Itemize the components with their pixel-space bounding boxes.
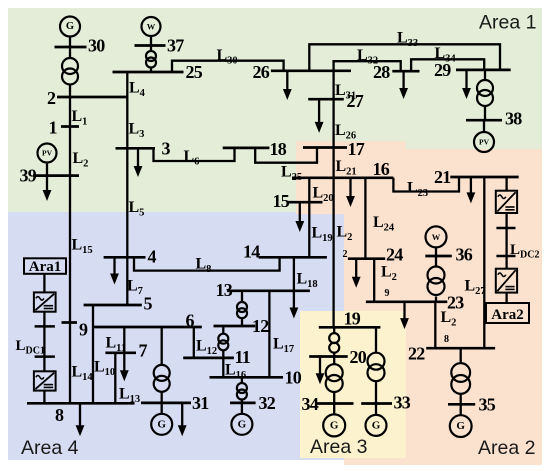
label LDC2	[510, 242, 539, 261]
label L14	[72, 364, 94, 384]
wire 5-6	[92, 305, 94, 327]
wire L16 11-10	[222, 358, 224, 377]
wire 20-transformer34	[333, 357, 335, 365]
svg-text:13: 13	[216, 280, 233, 300]
wire W-36	[435, 248, 437, 256]
wire transformer-35	[460, 394, 462, 405]
wire L1 2-1	[69, 97, 71, 127]
wire converter-converter LDC1	[43, 312, 45, 372]
wire L23 16-21	[393, 177, 459, 192]
label Area 1	[479, 12, 536, 34]
bus 28	[392, 70, 419, 73]
label L16	[225, 362, 246, 382]
wire transformer-11	[222, 350, 224, 358]
wire 31-G	[161, 403, 163, 414]
label 27	[347, 91, 364, 111]
label 29	[434, 60, 451, 80]
bus 9	[62, 321, 78, 324]
wire L10 6-8	[92, 327, 94, 403]
label 2 small	[343, 249, 348, 260]
wire transformer-25	[150, 67, 152, 72]
bus 5	[84, 304, 142, 307]
area 3 background (yellow)	[300, 311, 406, 458]
label L1	[72, 108, 88, 128]
label 3	[162, 139, 171, 159]
svg-text:15: 15	[273, 191, 290, 211]
transformer 10-32	[237, 383, 247, 400]
load arrow bus 3	[134, 148, 143, 177]
wire 21-converter	[505, 177, 507, 191]
label L2 24-23	[381, 264, 397, 284]
svg-text:W: W	[147, 22, 156, 32]
load arrow bus 26	[283, 71, 292, 100]
label L20	[313, 185, 334, 205]
wire transformer-20	[333, 352, 335, 356]
svg-text:5: 5	[144, 294, 153, 314]
wire L21 17-16	[332, 148, 334, 178]
label 21	[434, 167, 451, 187]
label 18	[270, 139, 287, 159]
svg-text:25: 25	[186, 62, 203, 82]
wire L32 26-28	[334, 61, 401, 71]
label 32	[259, 393, 276, 413]
wire W-37	[150, 36, 152, 46]
wire L3 2-3	[126, 97, 128, 148]
label L17	[273, 336, 294, 356]
transformer 6-31	[154, 365, 170, 392]
label 11	[235, 347, 251, 367]
label L25	[281, 164, 302, 184]
svg-text:7: 7	[139, 341, 148, 361]
wire 32-G	[241, 403, 243, 414]
generator W at bus 37	[142, 17, 161, 36]
svg-text:10: 10	[285, 368, 302, 388]
bus 19	[319, 326, 381, 329]
svg-text:12: 12	[252, 316, 269, 336]
bus 6	[93, 326, 202, 329]
load arrow bus 29	[462, 70, 471, 99]
svg-text:W: W	[432, 232, 441, 242]
converter LDC1 lower	[34, 371, 56, 390]
label 22	[408, 344, 425, 364]
label Area 4	[21, 437, 79, 459]
label 1	[49, 118, 58, 138]
bus 37	[135, 44, 166, 47]
svg-text:9: 9	[385, 288, 390, 299]
transformer 12-11	[218, 334, 228, 351]
svg-text:16: 16	[373, 159, 390, 179]
wire 36-transformer	[435, 256, 437, 266]
wire L2 24-23	[373, 259, 375, 302]
svg-text:19: 19	[344, 309, 361, 329]
wire Ara1-converter	[43, 274, 45, 293]
svg-text:3: 3	[162, 139, 171, 159]
svg-text:18: 18	[270, 139, 287, 159]
transformer 22-35	[451, 363, 470, 394]
svg-text:8: 8	[444, 334, 449, 345]
bus 3	[116, 147, 156, 150]
label 9	[79, 320, 88, 340]
bus 11	[183, 357, 234, 360]
bus 26	[271, 69, 351, 72]
wire transformer-12	[241, 318, 243, 326]
wire L24 16-24	[364, 178, 366, 259]
load arrow bus 23	[400, 302, 409, 329]
label 4	[148, 247, 157, 267]
bus 39	[33, 174, 79, 177]
svg-text:14: 14	[243, 242, 260, 262]
bus 12	[214, 325, 256, 328]
label LDC1	[16, 338, 45, 357]
converter LDC1 upper	[34, 292, 56, 311]
label L24	[373, 214, 395, 234]
wire converter-Ara2	[505, 293, 507, 304]
label 36	[456, 245, 473, 265]
svg-text:31: 31	[192, 393, 209, 413]
label 38	[505, 109, 522, 129]
wire L11 6-7	[123, 327, 125, 353]
label 5	[144, 294, 153, 314]
wire 34-G	[333, 404, 335, 415]
svg-text:32: 32	[259, 393, 276, 413]
bus 38	[466, 119, 502, 122]
label 15	[273, 191, 290, 211]
dc dash lower LDC1	[35, 355, 55, 358]
wire L30 25-26	[172, 61, 284, 72]
label 8	[55, 405, 64, 425]
label L10	[94, 359, 115, 379]
generator G at bus 32	[231, 414, 252, 435]
wire L2 16-19	[332, 178, 334, 327]
bus 35	[448, 403, 475, 406]
bus 29	[456, 69, 511, 72]
svg-text:35: 35	[479, 395, 496, 415]
transformer 36-23	[428, 267, 445, 296]
label L11	[106, 335, 127, 355]
bus 31	[141, 402, 191, 405]
label L6	[184, 148, 200, 168]
load arrow bus 15	[295, 202, 304, 232]
label 7	[139, 341, 148, 361]
svg-text:37: 37	[167, 36, 184, 56]
bus 2	[57, 96, 128, 99]
transformer 37-25	[146, 51, 156, 68]
generator PV at bus 39	[38, 144, 57, 163]
bus 24	[348, 257, 385, 260]
svg-text:1: 1	[49, 118, 58, 138]
wire 10-transformer	[241, 377, 243, 383]
svg-text:PV: PV	[42, 149, 53, 158]
wire 37-transformer	[150, 46, 152, 52]
svg-text:Area 1: Area 1	[479, 12, 536, 34]
label 16	[373, 159, 390, 179]
label 14	[243, 242, 260, 262]
label 25	[186, 62, 203, 82]
label 30	[88, 36, 105, 56]
label 19	[344, 309, 361, 329]
label L4	[129, 80, 146, 100]
converter LDC2 upper	[496, 191, 517, 213]
label 17	[348, 139, 365, 159]
bus 22	[426, 347, 495, 350]
wire 6-transformer31	[161, 327, 163, 365]
transformer 29-38	[477, 80, 493, 106]
bus 36	[425, 255, 452, 258]
bus 16	[292, 176, 393, 179]
svg-text:G: G	[330, 419, 339, 431]
wire 19-transformer33	[375, 327, 377, 353]
bus 8	[27, 402, 135, 405]
label L23	[407, 180, 428, 200]
wire 13-transformer	[241, 291, 243, 303]
label L26	[335, 122, 356, 142]
load arrow bus 7	[120, 353, 129, 381]
load arrow bus 16	[346, 178, 355, 207]
box Ara1	[24, 258, 66, 275]
label 9 small	[385, 288, 390, 299]
generator W at bus 36	[426, 226, 447, 247]
svg-text:G: G	[66, 21, 74, 32]
bus 15	[287, 201, 322, 204]
label 39	[20, 166, 37, 186]
load arrow bus 8	[76, 403, 85, 436]
dc dash upper LDC1	[35, 325, 55, 328]
bus 27	[308, 98, 344, 101]
wire L2 23-22	[434, 302, 436, 348]
bus 33	[361, 402, 392, 405]
svg-text:22: 22	[408, 344, 425, 364]
label 6	[186, 311, 195, 331]
svg-text:20: 20	[350, 347, 367, 367]
svg-text:4: 4	[148, 247, 157, 267]
wire L26 27-17	[332, 99, 334, 147]
svg-text:9: 9	[79, 320, 88, 340]
wire transformer-2	[69, 84, 71, 97]
wire transformer-32	[241, 400, 243, 403]
label 2	[47, 88, 56, 108]
generator PV at bus 38	[474, 132, 494, 152]
dc dash lower LDC2	[496, 255, 515, 258]
label 34	[302, 394, 319, 414]
wire 29-transformer	[484, 70, 486, 81]
label 24	[386, 245, 403, 265]
load arrow bus 39	[43, 176, 52, 201]
wire L5 3-4	[126, 148, 128, 257]
wire L4 25-2	[126, 72, 128, 97]
wire 19-transformer	[333, 327, 335, 333]
wire 35-G	[460, 404, 462, 415]
wire 38-PV	[483, 120, 485, 132]
svg-text:38: 38	[505, 109, 522, 129]
label L27	[465, 278, 486, 298]
bus 4	[104, 256, 146, 259]
svg-text:G: G	[157, 418, 166, 430]
label L18	[297, 271, 318, 291]
wire L6 3-18	[154, 148, 235, 161]
label L2 23-22	[441, 309, 457, 329]
generator G at bus 31	[151, 414, 172, 435]
wire converter-bus8	[43, 391, 45, 404]
label L21	[336, 158, 357, 178]
wire L34 28-29	[411, 59, 484, 71]
label L2 16-19	[337, 224, 353, 244]
load arrow bus 13	[290, 291, 299, 319]
label 35	[479, 395, 496, 415]
wire 22-transformer	[460, 348, 462, 363]
bus 14	[259, 256, 327, 259]
svg-text:PV: PV	[479, 138, 490, 147]
bus 1	[61, 125, 79, 128]
wire 30-transformer	[69, 47, 71, 59]
wire transformer-33	[375, 381, 377, 404]
wire L18 14-13	[293, 257, 295, 291]
svg-text:28: 28	[373, 62, 390, 82]
svg-text:39: 39	[20, 166, 37, 186]
svg-text:8: 8	[55, 405, 64, 425]
svg-text:21: 21	[434, 167, 451, 187]
svg-text:24: 24	[386, 245, 403, 265]
generator G at bus 33	[366, 415, 387, 436]
svg-text:2: 2	[47, 88, 56, 108]
wire L17 13-10	[268, 291, 270, 378]
svg-text:Ara2: Ara2	[491, 307, 524, 323]
wire L25 18-17	[255, 148, 317, 163]
label Area 3	[310, 436, 367, 458]
wire converter-dash	[505, 213, 507, 269]
svg-text:33: 33	[394, 393, 411, 413]
load arrow bus 4	[110, 257, 119, 284]
label L15	[72, 237, 93, 257]
wire transformer-34	[333, 392, 335, 404]
label L2	[73, 150, 89, 170]
load arrow bus 21	[467, 177, 476, 203]
label L32	[357, 47, 378, 67]
area 2 background (peach)	[296, 141, 542, 465]
load arrow bus 31	[178, 403, 187, 436]
label 20	[350, 347, 367, 367]
bus 30	[55, 46, 87, 49]
label L19	[312, 225, 333, 245]
transformer 19-33	[368, 353, 385, 382]
svg-text:G: G	[372, 419, 381, 431]
svg-text:Area 3: Area 3	[310, 436, 367, 458]
transformer 13-12	[237, 302, 247, 318]
wire transformer-23	[435, 297, 437, 302]
bus 7	[105, 351, 136, 354]
svg-text:G: G	[238, 418, 247, 430]
load arrow bus 27	[315, 99, 324, 133]
dc dash upper LDC2	[496, 227, 515, 230]
svg-text:2: 2	[343, 249, 348, 260]
load arrow bus 24	[352, 259, 361, 288]
bus 34	[315, 402, 354, 405]
label L7	[127, 278, 143, 298]
bus 18	[223, 147, 270, 150]
label 12	[252, 316, 269, 336]
wire 33-G	[375, 404, 377, 415]
generator G at bus 35	[450, 415, 472, 437]
load arrow bus 20	[316, 357, 325, 385]
svg-text:Area 2: Area 2	[478, 437, 535, 459]
wire G-30	[69, 37, 71, 48]
svg-text:30: 30	[88, 36, 105, 56]
label L34	[435, 45, 457, 65]
converter LDC2 lower	[496, 269, 517, 293]
bus 23	[366, 300, 447, 303]
load arrow bus 28	[399, 71, 408, 99]
transformer 20-34	[326, 364, 343, 392]
label L3	[129, 121, 145, 141]
bus 20	[309, 355, 348, 358]
wire transformer-31	[161, 392, 163, 403]
wire L12 6-11	[193, 327, 195, 358]
wire L20 16-15	[308, 178, 310, 202]
label 37	[167, 36, 184, 56]
label Area 2	[478, 437, 535, 459]
bus 10	[210, 376, 284, 379]
svg-text:11: 11	[235, 347, 251, 367]
wire L15 39-9	[69, 176, 71, 323]
bus 32	[230, 402, 256, 405]
label 13	[216, 280, 233, 300]
wire L33 26-29	[309, 44, 500, 71]
wire L27 21-22	[483, 177, 485, 348]
label L13	[119, 386, 140, 406]
svg-text:26: 26	[253, 62, 270, 82]
label L30	[217, 47, 238, 67]
transformer 30-2	[62, 58, 78, 85]
label L33	[397, 30, 418, 50]
wire PV-39	[46, 163, 48, 176]
wire transformer-38	[484, 105, 486, 120]
label 23	[447, 293, 464, 313]
svg-text:34: 34	[302, 394, 319, 414]
svg-text:G: G	[456, 420, 465, 432]
box Ara2	[486, 303, 529, 323]
wire L13 7-8	[114, 353, 116, 404]
generator G at bus 30	[60, 17, 80, 37]
label 8 small	[444, 334, 449, 345]
svg-text:17: 17	[348, 139, 365, 159]
svg-text:Ara1: Ara1	[29, 259, 62, 275]
wire L7 4-5	[126, 257, 128, 305]
label L12	[196, 338, 217, 358]
svg-text:29: 29	[434, 60, 451, 80]
label 10	[285, 368, 302, 388]
wire L19 15-14	[308, 202, 310, 257]
label L31	[335, 82, 356, 102]
generator G at bus 34	[323, 414, 345, 436]
transformer 19-20	[329, 333, 339, 353]
label 31	[192, 393, 209, 413]
area 4 background (lavender)	[8, 212, 344, 460]
wire 12-transformer	[222, 326, 224, 334]
bus 25	[113, 71, 184, 74]
wire L14 9-8	[69, 323, 71, 404]
area 1 background (green)	[8, 8, 542, 212]
bus 21	[450, 176, 518, 179]
label L8	[196, 256, 212, 276]
svg-text:36: 36	[456, 245, 473, 265]
label 28	[373, 62, 390, 82]
bus 13	[227, 289, 310, 292]
wire L8 4-14	[134, 257, 280, 270]
svg-text:Area 4: Area 4	[21, 437, 79, 459]
wire L2 1-39	[69, 127, 71, 176]
svg-text:27: 27	[347, 91, 364, 111]
label 26	[253, 62, 270, 82]
label L5	[129, 199, 145, 219]
